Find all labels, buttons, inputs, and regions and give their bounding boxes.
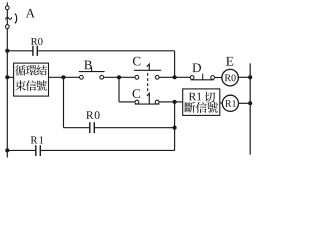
- label C (upper): [133, 57, 140, 66]
- wire rung1 right segment: [37, 50, 174, 52]
- wire rung2: B to C1: [104, 76, 135, 78]
- wire rung2: box to junction: [49, 76, 80, 78]
- junction dot: left rail / rung1: [5, 49, 9, 53]
- vertical bus: rung3 to bottom rung: [174, 102, 176, 150]
- junction dot: right rail / R1 coil rung: [248, 101, 252, 105]
- wire rung2: D to coil R0: [215, 77, 222, 79]
- text in box: line 2: [15, 80, 47, 91]
- label R0 (rung 4 contact): [86, 111, 99, 119]
- contact R0 (NO contact, rung 1): [33, 46, 37, 56]
- wire rung2: rail to annotation box: [7, 76, 13, 78]
- annotation box "R1 cut-off signal": [183, 89, 220, 116]
- label B: [84, 61, 92, 70]
- wire rung3: left segment: [119, 101, 135, 103]
- wire rung2: C1 to D: [159, 76, 190, 78]
- left rail (vertical supply line): [6, 2, 8, 157]
- label E: [226, 57, 233, 66]
- text in box: line 1 (R1 + glyph): [189, 92, 215, 103]
- wire bottom rung right segment: [40, 149, 174, 151]
- label A: [26, 9, 35, 18]
- contact R0 (NO contact, rung 4): [90, 122, 95, 133]
- wire: coil R1 to right rail: [239, 102, 251, 104]
- annotation box "cycle end signal": [14, 63, 49, 96]
- text in box: line 1: [15, 65, 47, 75]
- wire drop from rung1 to rung2: [174, 51, 176, 78]
- label R0 (rung 1 contact): [31, 38, 43, 45]
- wire drop rung2 to rung3 (after B): [118, 77, 120, 102]
- contact C2 (NC, mechanically linked): [135, 93, 160, 104]
- junction dot: rung2 / vertical bus: [173, 75, 177, 79]
- junction dot: right rail / R0 coil rung: [248, 75, 252, 79]
- contact C1 (NO, mechanically linked): [134, 64, 161, 79]
- junction dot: rung2 / drop to rung4: [61, 75, 65, 79]
- wire rung4 right segment: [94, 127, 174, 129]
- label D: [192, 63, 201, 72]
- label R1 (bottom contact): [31, 136, 44, 143]
- junction dot: rung2 / drop to rung3: [117, 75, 121, 79]
- label C (lower): [133, 89, 140, 98]
- switch A (main switch on left rail): [5, 6, 16, 29]
- wire bottom rung left segment: [7, 149, 35, 151]
- mechanical link dashed line C1-C2: [147, 73, 149, 94]
- wire drop rung2 junction down to rung4: [63, 77, 65, 127]
- junction dot: rung3 / vertical bus: [173, 100, 177, 104]
- wire rung4 left segment: [64, 127, 90, 129]
- pushbutton B (NO): [79, 67, 105, 79]
- wire: coil R0 to right rail: [238, 76, 250, 78]
- relay coil R1: [222, 95, 238, 111]
- junction dot: rung4 / vertical bus: [173, 126, 177, 130]
- wire: box to coil R1: [220, 102, 222, 104]
- relay coil R0: [222, 69, 239, 86]
- contact R1 (NO contact, bottom rung): [36, 145, 41, 156]
- right rail (vertical supply line): [249, 63, 251, 154]
- text in box: line 2: [184, 102, 218, 113]
- wire rung3: C2 to junction: [159, 101, 175, 103]
- pushbutton D (NC): [190, 74, 214, 80]
- wire rung1 left segment: [7, 50, 33, 52]
- junction dot: left rail / rung2: [5, 75, 9, 79]
- wire rung3: junction to annotation box: [175, 101, 183, 103]
- junction dot: left rail / bottom rung: [5, 148, 9, 152]
